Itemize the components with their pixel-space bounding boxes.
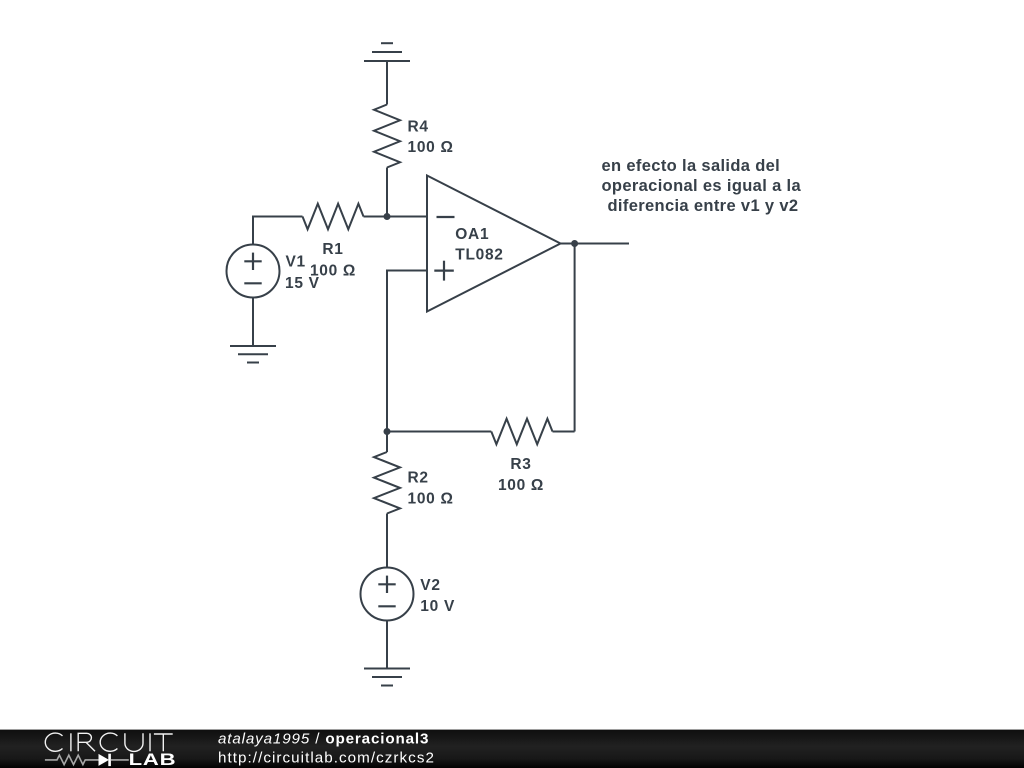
svg-text:R3: R3 <box>510 456 531 473</box>
wire R3 to feedback <box>553 431 575 433</box>
footer bar <box>0 730 1024 768</box>
wire R2 to V2 <box>386 514 388 568</box>
svg-text:TL082: TL082 <box>455 246 503 263</box>
svg-text:R1: R1 <box>322 241 343 258</box>
svg-text:100 Ω: 100 Ω <box>408 139 454 156</box>
svg-text:operacional es igual a la: operacional es igual a la <box>602 177 802 195</box>
wire top-ground to R4 <box>386 61 388 105</box>
svg-text:http://circuitlab.com/czrkcs2: http://circuitlab.com/czrkcs2 <box>218 750 435 767</box>
wire node B to R2 <box>386 432 388 453</box>
svg-text:diferencia entre v1 y v2: diferencia entre v1 y v2 <box>608 197 799 215</box>
label OA1 type <box>455 226 503 263</box>
ground below V2 <box>364 669 410 686</box>
svg-text:atalaya1995 / operacional3: atalaya1995 / operacional3 <box>218 731 429 748</box>
svg-text:V1: V1 <box>286 253 306 270</box>
node C output junction <box>571 240 578 247</box>
wire feedback vertical <box>574 244 576 432</box>
label R2 value <box>408 470 454 508</box>
wire V1 to ground <box>252 298 254 347</box>
label R1 value <box>310 241 356 280</box>
node B junction <box>384 428 391 435</box>
svg-text:LAB: LAB <box>129 750 177 768</box>
op-amp OA1 <box>427 176 561 312</box>
svg-text:OA1: OA1 <box>455 226 489 243</box>
voltage source V1 <box>227 245 280 298</box>
label R4 value <box>408 119 454 157</box>
wire node B to R3 <box>387 431 491 433</box>
svg-text:100 Ω: 100 Ω <box>408 490 454 507</box>
svg-text:100 Ω: 100 Ω <box>498 477 544 494</box>
ground (flipped, top rail) <box>364 43 410 61</box>
svg-text:R4: R4 <box>408 119 429 136</box>
voltage source V2 <box>361 568 414 621</box>
wire V1 to R1 <box>253 217 303 245</box>
resistor R3 <box>491 419 552 445</box>
resistor R1 <box>303 204 364 230</box>
svg-text:15 V: 15 V <box>285 275 320 292</box>
label V1 value <box>285 253 320 292</box>
wire node A to op-amp inverting input <box>387 216 427 218</box>
svg-text:en efecto la salida del: en efecto la salida del <box>602 157 781 175</box>
annotation note text <box>602 157 802 215</box>
wire R1 to node A <box>364 216 388 218</box>
resistor R4 <box>374 105 400 168</box>
ground below V1 <box>230 346 276 363</box>
wire R4 to node A <box>386 168 388 217</box>
CircuitLab logo resistor-diode glyph <box>45 754 129 766</box>
resistor R2 <box>374 452 400 514</box>
wire V2 to ground <box>386 621 388 669</box>
wire output <box>561 243 630 245</box>
label R3 value <box>498 456 544 494</box>
label V2 value <box>420 577 455 615</box>
footer credit line <box>218 731 435 767</box>
svg-text:R2: R2 <box>408 470 429 487</box>
node A junction <box>384 213 391 220</box>
svg-text:10 V: 10 V <box>420 598 455 615</box>
wire op-amp non-inverting input to node B <box>387 271 427 432</box>
CircuitLab logo wordmark CIRCUIT <box>45 733 172 751</box>
svg-text:V2: V2 <box>420 577 440 594</box>
